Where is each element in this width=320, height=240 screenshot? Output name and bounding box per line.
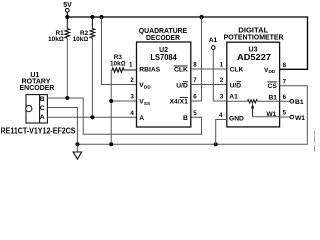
node rail-VDD-feed: [99, 15, 103, 19]
svg-text:2: 2: [130, 77, 134, 84]
ground symbol: [73, 144, 81, 159]
svg-text:1: 1: [129, 62, 133, 69]
svg-text:U/D: U/D: [230, 83, 242, 90]
svg-text:2: 2: [220, 77, 224, 84]
5V supply terminal: [63, 2, 72, 17]
svg-text:RE11CT-V1Y12-EF2CS: RE11CT-V1Y12-EF2CS: [1, 126, 77, 135]
svg-text:CLK: CLK: [174, 67, 188, 74]
ground rail: [77, 86, 307, 144]
svg-text:8: 8: [193, 62, 197, 69]
resistor R3: [110, 54, 136, 72]
svg-text:7: 7: [283, 78, 287, 85]
node A-R2 junction: [90, 115, 94, 119]
svg-text:B: B: [40, 96, 45, 103]
svg-text:A1: A1: [229, 94, 238, 101]
svg-text:A: A: [40, 114, 45, 121]
svg-text:W1: W1: [295, 115, 305, 122]
svg-text:A: A: [139, 115, 144, 122]
svg-text:1: 1: [220, 62, 224, 69]
terminal A1: [209, 37, 227, 101]
wire U2 UD to U3 UD: [191, 84, 227, 86]
svg-text:5: 5: [283, 110, 287, 117]
node gnd-VSS: [109, 142, 113, 146]
node VSS-join: [109, 99, 113, 103]
resistor R1: [48, 17, 69, 98]
svg-text:3: 3: [130, 94, 134, 101]
svg-text:ENCODER: ENCODER: [19, 85, 54, 92]
svg-text:10kΩ: 10kΩ: [73, 36, 89, 43]
svg-text:4: 4: [219, 112, 223, 119]
svg-text:C: C: [40, 105, 45, 112]
svg-text:DECODER: DECODER: [146, 33, 181, 42]
wire R3/VSS ground drop: [110, 70, 112, 144]
wire VDD feed to U2 pin 2: [102, 17, 137, 85]
node B-R1 junction: [65, 96, 69, 100]
terminal W1: [280, 115, 306, 122]
svg-text:10kΩ: 10kΩ: [110, 60, 126, 67]
svg-text:8: 8: [283, 62, 287, 69]
wire U2 CLK to U3 CLK: [191, 68, 227, 70]
svg-text:POTENTIOMETER: POTENTIOMETER: [224, 33, 284, 42]
svg-text:RBIAS: RBIAS: [139, 67, 160, 74]
svg-text:U/D: U/D: [176, 83, 188, 90]
wire X4/X1 tie to 5V: [191, 17, 202, 101]
wire encoder A to U2 pin 4: [47, 116, 136, 118]
node gnd-U3: [214, 142, 218, 146]
node gnd-triangle: [75, 142, 79, 146]
svg-text:AD5227: AD5227: [237, 52, 271, 62]
svg-text:7: 7: [193, 77, 197, 84]
svg-text:6: 6: [283, 94, 287, 101]
svg-text:10529-028: 10529-028: [314, 131, 316, 153]
wire encoder B to U2 pin 5 (around bottom): [47, 98, 201, 134]
quadrature decoder U2: [137, 26, 191, 127]
svg-text:5: 5: [193, 110, 197, 117]
wire U3 GND to ground rail: [216, 120, 227, 145]
wire U2 VSS to ground drop: [111, 100, 136, 102]
svg-text:B1: B1: [295, 99, 304, 106]
svg-text:4: 4: [130, 110, 134, 117]
svg-text:LS7084: LS7084: [150, 52, 177, 62]
svg-text:CLK: CLK: [230, 67, 244, 74]
svg-text:B: B: [183, 115, 188, 122]
svg-text:B1: B1: [268, 94, 277, 101]
svg-text:10kΩ: 10kΩ: [48, 36, 64, 43]
node rail-R1: [65, 15, 69, 19]
node rail-X4-feed: [199, 15, 203, 19]
resistor R2: [73, 17, 95, 117]
wire 5V top rail: [67, 17, 307, 69]
svg-text:CS: CS: [268, 83, 278, 90]
potentiometer element inside U3: [227, 100, 280, 117]
svg-text:3: 3: [220, 94, 224, 101]
terminal B1: [280, 99, 304, 106]
digital potentiometer U3: [224, 26, 284, 127]
svg-text:GND: GND: [229, 116, 244, 123]
svg-text:X4/X1: X4/X1: [170, 98, 188, 105]
wire encoder C to ground: [47, 108, 77, 145]
svg-text:A1: A1: [209, 37, 218, 44]
svg-text:6: 6: [193, 94, 197, 101]
node rail-R2: [90, 15, 94, 19]
rotary encoder U1: [19, 72, 54, 123]
